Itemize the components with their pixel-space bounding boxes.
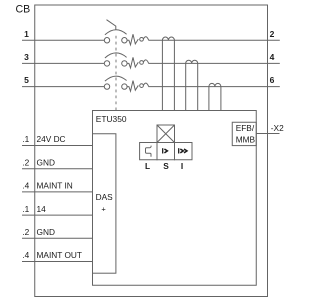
control wire MAINT OUT <box>22 261 93 263</box>
EFB/MMB box <box>232 122 256 145</box>
wire 1 to right stub <box>148 39 279 41</box>
svg-text:5: 5 <box>24 75 29 85</box>
L box <box>140 143 157 160</box>
CT lead 2a <box>185 63 187 110</box>
coil humps P3 <box>140 84 144 88</box>
CT humps P1 <box>162 37 174 40</box>
contact arc P2 <box>105 53 127 58</box>
contact circle left P3 <box>104 84 109 89</box>
wire 1 left stub <box>22 39 104 41</box>
wire 5 to right stub <box>148 86 279 88</box>
CT lead 2b <box>197 63 199 110</box>
control wire 24V DC <box>22 145 93 147</box>
overcurrent release zigzag P3 <box>127 81 138 92</box>
svg-text:14: 14 <box>37 204 47 214</box>
svg-text:.4: .4 <box>22 181 29 191</box>
L icon long-time curve <box>146 146 152 157</box>
svg-text:.1: .1 <box>22 204 29 214</box>
CT lead 3b <box>220 87 222 111</box>
contact circle left P1 <box>104 38 109 43</box>
svg-text:.1: .1 <box>22 134 29 144</box>
contact circle right P2 <box>122 61 127 66</box>
svg-text:I: I <box>181 161 183 171</box>
wire 3 left stub <box>22 62 104 64</box>
control wire 14 <box>22 214 93 216</box>
svg-text:4: 4 <box>270 52 275 62</box>
coil humps P1 <box>140 37 144 41</box>
I box <box>175 143 193 160</box>
overcurrent release zigzag P1 <box>127 34 138 45</box>
svg-text:GND: GND <box>37 227 55 237</box>
svg-text:CB: CB <box>16 4 31 16</box>
contact circle right P3 <box>122 84 127 89</box>
DAS box <box>93 134 116 273</box>
svg-text:ETU350: ETU350 <box>96 114 127 124</box>
svg-text:GND: GND <box>37 157 55 167</box>
CT humps P3 <box>209 83 221 86</box>
wire 5 left stub <box>22 86 104 88</box>
coil humps P2 <box>140 61 144 65</box>
svg-text:DAS: DAS <box>96 192 114 202</box>
CT lead 3a <box>208 87 210 111</box>
CT humps P2 <box>186 60 198 63</box>
svg-text:MMB: MMB <box>236 134 256 144</box>
svg-text:-X2: -X2 <box>271 123 284 133</box>
svg-text:1: 1 <box>24 29 29 39</box>
control wire GND1 <box>22 168 93 170</box>
contact circle left P2 <box>104 61 109 66</box>
svg-text:MAINT IN: MAINT IN <box>37 181 73 191</box>
mechanical linkage dashed line <box>115 36 117 111</box>
overcurrent release zigzag P2 <box>127 57 138 68</box>
contact arc P3 <box>105 76 127 81</box>
outer breaker frame box <box>35 5 268 297</box>
svg-text:6: 6 <box>270 75 275 85</box>
contact circle right P1 <box>122 38 127 43</box>
wire -X2 stub <box>256 133 279 135</box>
crossed box <box>157 125 175 143</box>
S box <box>157 143 175 160</box>
svg-text:L: L <box>145 161 150 171</box>
svg-text:+: + <box>101 204 106 213</box>
svg-text:.2: .2 <box>22 157 29 167</box>
svg-text:S: S <box>163 161 169 171</box>
ETU box <box>93 111 257 286</box>
control wire MAINT IN <box>22 191 93 193</box>
svg-text:2: 2 <box>270 29 275 39</box>
svg-text:MAINT OUT: MAINT OUT <box>37 250 82 260</box>
label I> <box>163 148 168 153</box>
crossed box diagonal 2 <box>157 125 175 143</box>
label I>> <box>179 148 187 153</box>
svg-text:EFB/: EFB/ <box>236 123 255 133</box>
control wire GND2 <box>22 237 93 239</box>
wire 3 to right stub <box>148 62 279 64</box>
svg-text:3: 3 <box>24 52 29 62</box>
CT lead 1a <box>161 40 163 110</box>
contact arc P1 <box>105 30 127 35</box>
svg-text:.2: .2 <box>22 227 29 237</box>
CT lead 1b <box>173 40 175 110</box>
crossed box diagonal 1 <box>157 125 175 143</box>
svg-text:24V DC: 24V DC <box>37 134 66 144</box>
svg-text:.4: .4 <box>22 250 29 260</box>
trip actuator hook <box>107 20 116 30</box>
